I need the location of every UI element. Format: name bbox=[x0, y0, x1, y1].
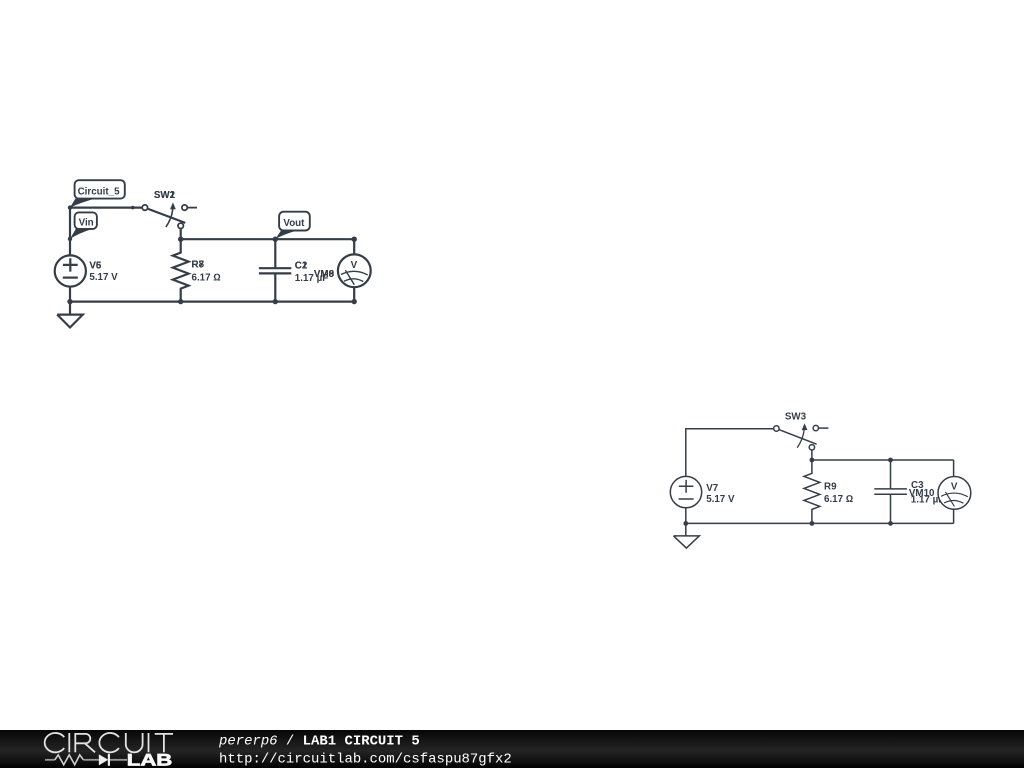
wire bottom rail bbox=[70, 301, 354, 303]
wire V6 to ground rail bbox=[69, 287, 71, 302]
wire top-left bbox=[686, 429, 774, 477]
label R7/R8 bbox=[192, 259, 221, 283]
resistor R9 bbox=[804, 460, 820, 523]
svg-text:C2: C2 bbox=[295, 260, 308, 271]
resistor R8 bbox=[173, 239, 189, 301]
label R9 bbox=[824, 481, 853, 505]
wire left vertical bbox=[69, 208, 71, 256]
junction dots bottom rail bbox=[178, 299, 183, 304]
svg-text:VM9: VM9 bbox=[314, 269, 335, 280]
svg-text:5.17 V: 5.17 V bbox=[89, 272, 118, 283]
wire V7 to bottom rail bbox=[685, 508, 687, 524]
svg-text:SW2: SW2 bbox=[154, 190, 176, 201]
label C1/C2 bbox=[295, 260, 328, 284]
logo CIRCUIT letters bbox=[45, 733, 173, 752]
svg-text:V6: V6 bbox=[89, 260, 102, 271]
svg-text:Vin: Vin bbox=[79, 217, 94, 228]
wire top rail node A to switch bbox=[70, 207, 142, 209]
label V7 bbox=[706, 483, 735, 505]
voltage source V6 bbox=[55, 255, 86, 286]
junction dots bottom rail bbox=[810, 521, 815, 526]
flag Vout bbox=[275, 212, 309, 239]
capacitor C3 bbox=[874, 460, 907, 523]
svg-text:LAB: LAB bbox=[127, 751, 173, 768]
svg-text:V: V bbox=[951, 481, 958, 492]
label V5/V6 bbox=[89, 260, 118, 283]
svg-text:SW3: SW3 bbox=[785, 412, 807, 423]
svg-text:VM10: VM10 bbox=[909, 488, 935, 499]
svg-text:V7: V7 bbox=[706, 483, 719, 494]
node A junction dot bbox=[68, 205, 72, 209]
voltmeter VM9 bbox=[338, 239, 371, 301]
svg-text:http://circuitlab.com/csfaspu8: http://circuitlab.com/csfaspu87gfx2 bbox=[219, 752, 512, 768]
junction dot bbox=[178, 237, 183, 242]
voltage source V7 bbox=[670, 476, 701, 507]
switch SW3 bbox=[774, 423, 829, 450]
flag Circuit_5 bbox=[70, 180, 125, 207]
corner dot voltmeter top bbox=[352, 237, 357, 242]
wire mid rail bbox=[181, 238, 355, 240]
junction dot bbox=[683, 521, 688, 526]
svg-text:R9: R9 bbox=[824, 481, 837, 492]
svg-text:pererp6 / LAB1 CIRCUIT 5: pererp6 / LAB1 CIRCUIT 5 bbox=[218, 733, 420, 749]
svg-text:Circuit_5: Circuit_5 bbox=[78, 187, 120, 198]
logo resistor zigzag bbox=[45, 755, 99, 765]
ground bbox=[57, 302, 83, 328]
svg-text:5.17 V: 5.17 V bbox=[706, 494, 735, 505]
label C3 bbox=[911, 480, 944, 505]
flag Vin bbox=[70, 212, 97, 239]
node Vin junction dot bbox=[68, 237, 72, 241]
node Vout junction dot bbox=[273, 237, 278, 242]
svg-text:R8: R8 bbox=[192, 259, 205, 270]
voltmeter VM10 bbox=[938, 460, 971, 523]
svg-text:Vout: Vout bbox=[283, 218, 305, 229]
switch SW2 bbox=[142, 202, 197, 228]
wire switch to mid rail bbox=[811, 450, 813, 460]
junction dot bbox=[810, 458, 815, 463]
logo diode bbox=[99, 754, 127, 766]
ground bbox=[674, 523, 700, 548]
wire endpoint dot at switch lead bbox=[131, 206, 135, 210]
capacitor C2 bbox=[259, 239, 291, 301]
junction dot cap top bbox=[888, 458, 893, 463]
wire switch to mid rail bbox=[180, 229, 182, 240]
svg-text:V: V bbox=[351, 260, 358, 271]
label VM8/VM9 bbox=[314, 269, 335, 280]
wire bottom rail bbox=[686, 522, 954, 524]
svg-text:6.17 Ω: 6.17 Ω bbox=[192, 272, 221, 283]
junction dot bottom left bbox=[67, 299, 72, 304]
svg-text:6.17 Ω: 6.17 Ω bbox=[824, 494, 853, 505]
wire mid rail bbox=[812, 459, 954, 461]
bottom bar background bbox=[0, 730, 1024, 768]
label SW1/SW2 bbox=[154, 190, 176, 201]
